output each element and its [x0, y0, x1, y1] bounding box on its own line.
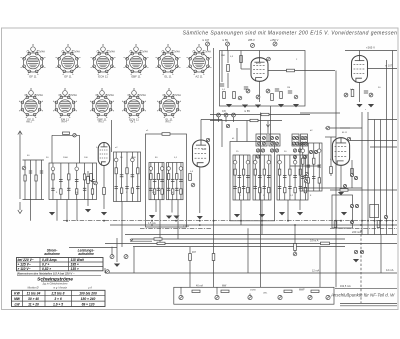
svg-text:0,8: 0,8	[222, 109, 226, 113]
svg-text:+250 V: +250 V	[270, 38, 279, 42]
svg-text:0,2V/4A: 0,2V/4A	[34, 94, 43, 97]
svg-text:1,6 » 5: 1,6 » 5	[53, 302, 63, 306]
svg-text:5000: 5000	[131, 157, 137, 159]
svg-text:135 »: 135 »	[71, 267, 79, 271]
svg-text:bei 220 V~: bei 220 V~	[18, 258, 34, 262]
svg-text:100 bis 200: 100 bis 200	[79, 292, 97, 296]
svg-text:195 »: 195 »	[71, 262, 79, 266]
svg-text:+265 V: +265 V	[366, 46, 375, 50]
svg-text:115 Watt: 115 Watt	[71, 258, 85, 262]
svg-text:3 » 6: 3 » 6	[54, 297, 61, 301]
svg-text:2000: 2000	[63, 157, 69, 159]
svg-text:285 V: 285 V	[248, 38, 255, 42]
svg-text:0,45 Amp.: 0,45 Amp.	[42, 258, 58, 262]
svg-text:EL11: EL11	[342, 132, 348, 134]
svg-text:Anschlußpunkte für NF-Teil d.: Anschlußpunkte für NF-Teil d. W	[330, 293, 395, 298]
svg-text:EL 11: EL 11	[165, 75, 172, 79]
svg-text:» 110 V~: » 110 V~	[18, 267, 31, 271]
svg-text:Monitor Ø: Monitor Ø	[28, 286, 40, 289]
svg-text:ECH 11: ECH 11	[98, 75, 108, 79]
svg-text:0,9 m A: 0,9 m A	[310, 240, 319, 243]
svg-text:220 mA: 220 mA	[352, 230, 361, 234]
svg-text:0,2V/4A: 0,2V/4A	[71, 50, 80, 53]
svg-text:aufnahme: aufnahme	[44, 252, 60, 256]
svg-text:0,2V/4A: 0,2V/4A	[171, 50, 180, 53]
svg-text:m 107: m 107	[202, 38, 210, 42]
svg-text:180 » 240: 180 » 240	[81, 297, 96, 301]
svg-text:2,5 bis 8: 2,5 bis 8	[50, 292, 64, 296]
svg-text:AZ 11: AZ 11	[195, 75, 203, 79]
svg-text:MW: MW	[14, 297, 21, 301]
svg-text:μ A: μ A	[87, 286, 92, 289]
svg-text:Art 3: Art 3	[98, 121, 104, 124]
svg-text:0,7 »: 0,7 »	[42, 262, 49, 266]
svg-text:0,2V/4A: 0,2V/4A	[172, 94, 181, 97]
svg-text:0,2V/4A: 0,2V/4A	[137, 94, 146, 97]
svg-text:0,2V/4A: 0,2V/4A	[68, 94, 77, 97]
svg-text:Sämtliche Spannungen sind m: Sämtliche Spannungen sind mit Mavometer …	[183, 31, 398, 37]
svg-text:162,5 mA: 162,5 mA	[340, 285, 351, 288]
svg-text:1M: 1M	[287, 87, 290, 89]
svg-text:MWF: MWF	[299, 289, 305, 292]
svg-text:m g / Ansatz: m g / Ansatz	[53, 286, 68, 289]
svg-text:12 mA: 12 mA	[312, 270, 320, 273]
svg-text:LW: LW	[14, 302, 20, 306]
svg-text:0,2V/4A: 0,2V/4A	[202, 50, 211, 53]
svg-text:40 mA: 40 mA	[196, 284, 203, 287]
svg-text:Art 1: Art 1	[165, 121, 171, 124]
svg-text:0,2V/4A: 0,2V/4A	[36, 50, 45, 53]
svg-text:7 mA: 7 mA	[183, 224, 189, 228]
svg-text:Dr 1: Dr 1	[131, 121, 136, 124]
svg-text:m 85: m 85	[222, 38, 228, 42]
svg-text:(Nennstrom des Netzteiles 0: (Nennstrom des Netzteiles 0,5 A bei 220 …	[17, 272, 75, 276]
svg-text:11 bis 34: 11 bis 34	[27, 292, 41, 296]
svg-text:30 » 40: 30 » 40	[28, 297, 39, 301]
svg-text:EF 11: EF 11	[29, 75, 37, 79]
svg-text:467: 467	[192, 251, 197, 254]
svg-text:69 » 120: 69 » 120	[82, 302, 95, 306]
svg-text:aufnahme: aufnahme	[78, 252, 94, 256]
svg-text:12 mA: 12 mA	[386, 268, 394, 272]
svg-text:Ant 2: Ant 2	[26, 121, 32, 124]
svg-text:m 85: m 85	[244, 109, 250, 113]
svg-text:150W: 150W	[250, 290, 257, 292]
svg-text:0,2V/4A: 0,2V/4A	[139, 50, 148, 53]
svg-text:MW: MW	[222, 284, 227, 287]
svg-text:Δg in Gleichstrecken: Δg in Gleichstrecken	[42, 281, 68, 285]
svg-text:EF 11: EF 11	[64, 75, 72, 79]
svg-text:» 125 V~: » 125 V~	[18, 262, 31, 266]
svg-text:KW: KW	[14, 292, 20, 296]
svg-text:Art 4: Art 4	[61, 121, 67, 124]
svg-text:11 » 20: 11 » 20	[28, 302, 39, 306]
svg-text:0,82 »: 0,82 »	[42, 267, 51, 271]
svg-text:m 107: m 107	[385, 64, 393, 68]
svg-text:2M: 2M	[302, 139, 305, 141]
svg-text:0,2V/4A: 0,2V/4A	[105, 94, 114, 97]
svg-text:EBF: EBF	[202, 149, 207, 151]
svg-text:0,2V/4A: 0,2V/4A	[106, 50, 115, 53]
svg-text:ECH: ECH	[256, 63, 261, 65]
svg-text:EBF 11: EBF 11	[131, 75, 141, 79]
